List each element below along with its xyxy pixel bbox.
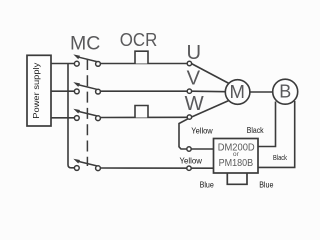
terminal on yellow wire 1 [187,147,191,151]
MC contact 1 [73,54,100,66]
svg-text:PM180B: PM180B [219,158,254,169]
yellow wire 1: terminal W to rectifier [179,119,188,149]
brake rectifier DM200D/PM180B [214,139,259,174]
wire phase U: MC to terminal U [101,63,188,65]
wire motor to brake [250,91,273,93]
terminal V [187,89,191,93]
yellow wire 2: MC aux to rectifier [101,167,214,169]
brake coil B [273,79,298,104]
MC contact 3 [73,109,100,121]
svg-text:Yellow: Yellow [180,155,203,165]
OCR heater element phase W [135,106,148,118]
wire L3 supply to MC contact 3 [51,117,75,119]
svg-text:Black: Black [247,125,264,135]
black wire 1: brake to rectifier [258,102,276,147]
terminal U [187,61,191,65]
svg-text:M: M [229,81,244,102]
wire phase V: MC to terminal V [101,90,188,92]
MC mechanical linkage (dashed) [86,59,88,166]
svg-text:OCR: OCR [120,29,158,50]
wire terminal U to motor [191,64,230,85]
wire L2 supply to MC contact 2 [51,90,75,92]
wire terminal W to motor [191,100,230,117]
wire phase W: MC to terminal W [101,116,188,118]
wire L1 supply to MC contact 1 [51,63,75,65]
svg-text:Blue: Blue [200,179,214,189]
black wire 2: brake to rectifier [258,101,295,167]
MC aux contact 4 [73,159,100,171]
motor M [225,80,250,105]
blue wire loop below rectifier [227,173,247,184]
power supply box [27,55,51,126]
terminal on yellow wire 2 [187,166,191,170]
svg-text:W: W [185,93,204,115]
MC contact 2 [73,82,100,94]
svg-text:Black: Black [273,153,287,162]
svg-text:Yellow: Yellow [191,126,213,136]
wire left bus to MC aux contact [68,64,75,168]
wire terminal V to motor [191,90,226,93]
terminal W [187,115,191,119]
OCR heater element phase U [135,51,148,63]
svg-text:B: B [279,81,291,101]
svg-text:Power supply: Power supply [31,62,41,119]
svg-text:Blue: Blue [259,180,273,190]
svg-text:V: V [187,67,201,89]
svg-text:MC: MC [70,32,100,54]
